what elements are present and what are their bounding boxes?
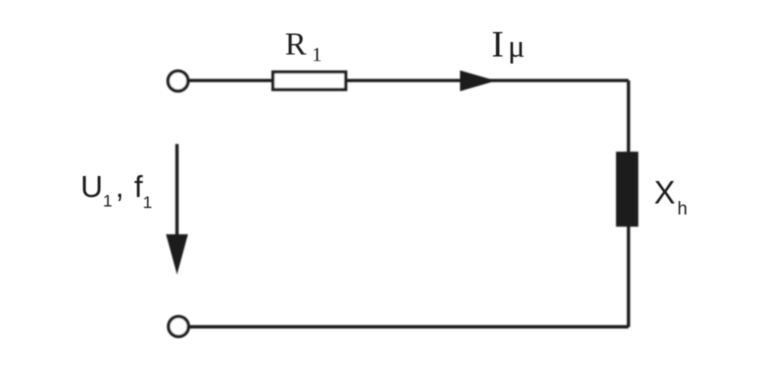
- wire (bottom): [190, 325, 629, 328]
- resistor R1: [273, 72, 346, 90]
- svg-text:Iμ: Iμ: [492, 25, 525, 66]
- wire (resistor to top-right corner): [347, 79, 629, 82]
- wire (Xh down to bottom-right corner): [627, 226, 630, 327]
- current arrow Iμ (arrowhead on top wire): [460, 70, 496, 91]
- voltage arrow U1,f1 (arrowhead): [166, 234, 188, 274]
- svg-text:Xh: Xh: [654, 175, 687, 219]
- svg-text:U1, f1: U1, f1: [81, 169, 153, 212]
- wire (top-left terminal to resistor): [190, 79, 272, 82]
- terminal (bottom-left input): [169, 317, 189, 337]
- voltage arrow U1,f1 (line): [175, 144, 178, 238]
- svg-text:R1: R1: [285, 26, 322, 67]
- reactance Xh (filled rectangle): [616, 152, 638, 227]
- terminal (top-left input): [168, 71, 188, 91]
- wire (top-right corner down to Xh): [627, 81, 630, 154]
